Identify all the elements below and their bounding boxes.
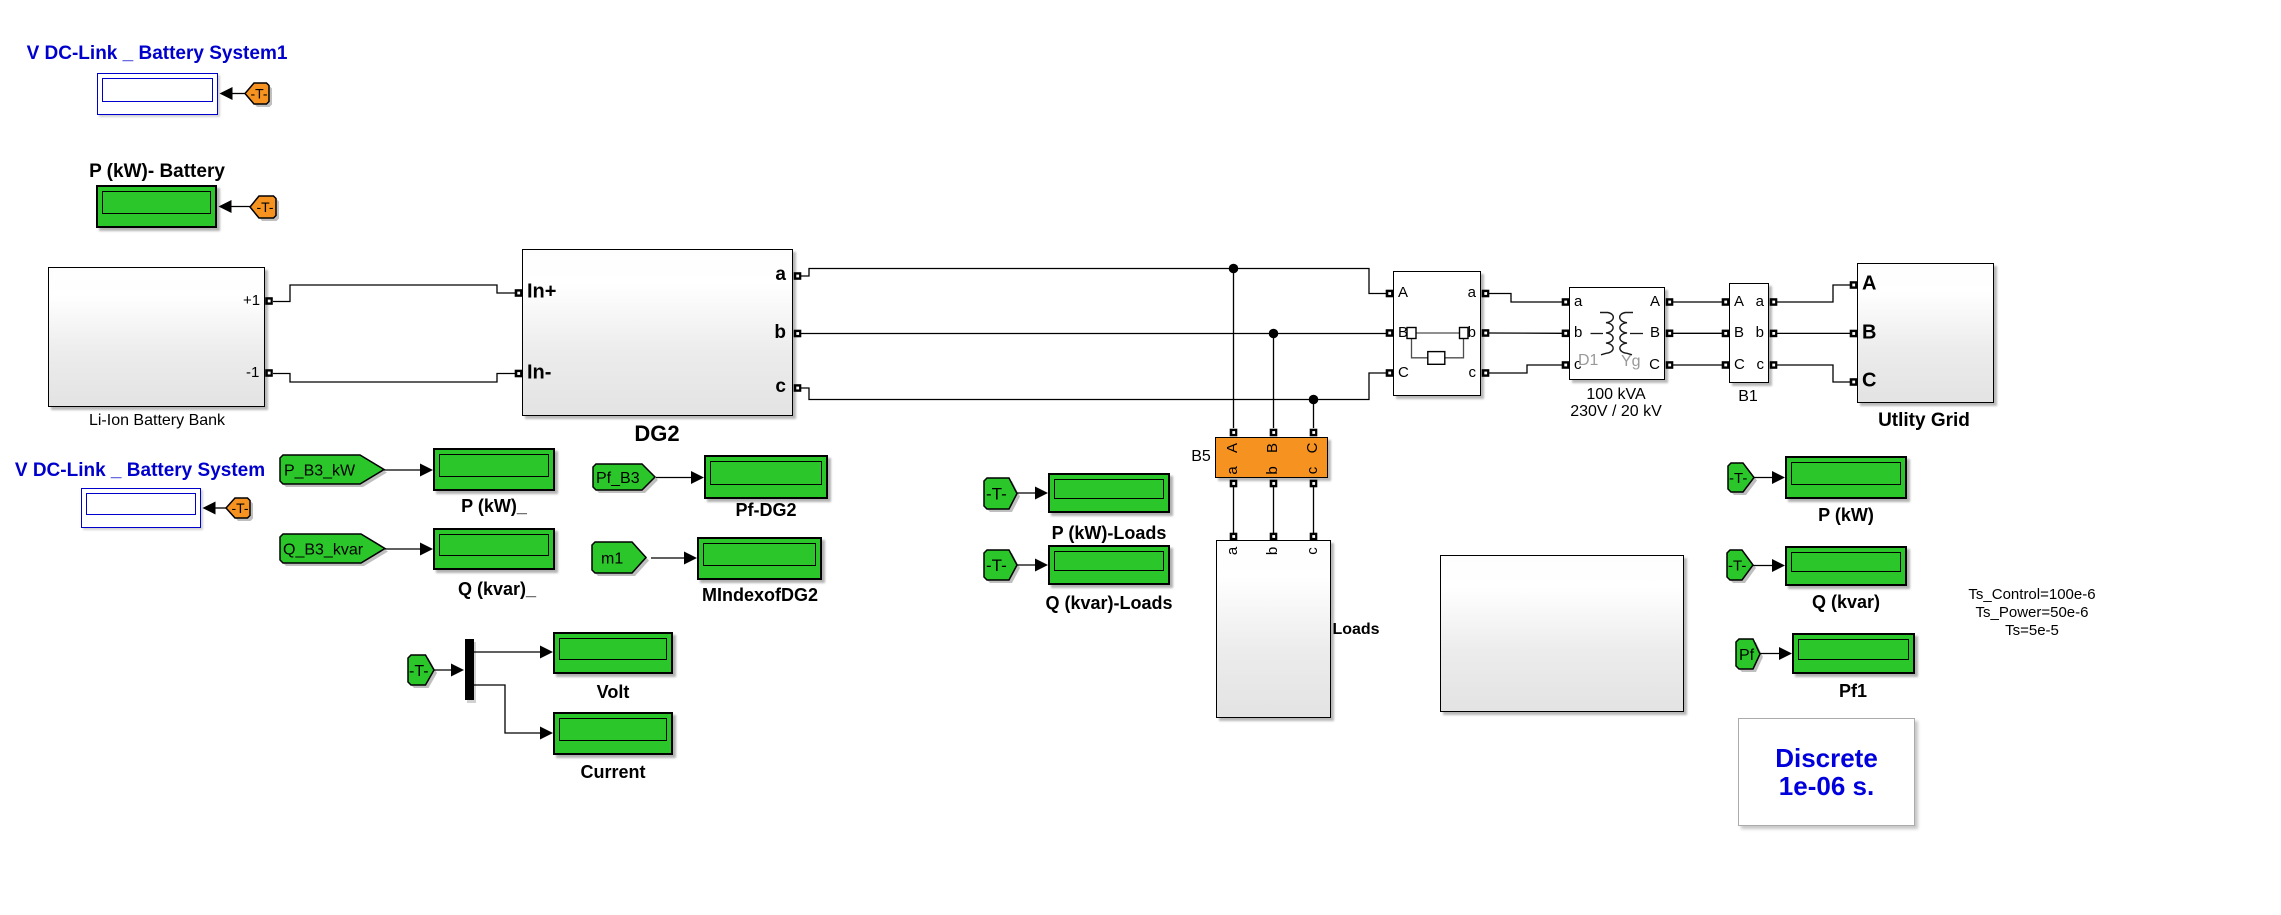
svg-text:P_B3_kW: P_B3_kW <box>284 462 356 479</box>
svg-text:-T-: -T- <box>1729 470 1747 487</box>
svg-text:Pf_B3: Pf_B3 <box>596 470 640 487</box>
svg-text:C: C <box>1304 442 1321 453</box>
svg-text:D1: D1 <box>1578 352 1599 369</box>
svg-text:a: a <box>1224 466 1241 475</box>
svg-text:c: c <box>1304 547 1321 555</box>
svg-text:c: c <box>1304 466 1321 474</box>
svg-text:B: B <box>1264 443 1281 453</box>
svg-text:-T-: -T- <box>231 500 248 516</box>
svg-text:b: b <box>1264 466 1281 474</box>
svg-text:Pf: Pf <box>1739 647 1755 664</box>
svg-text:-T-: -T- <box>986 485 1007 504</box>
svg-text:-T-: -T- <box>256 199 273 215</box>
svg-text:-T-: -T- <box>409 663 429 680</box>
svg-text:-T-: -T- <box>986 556 1007 575</box>
svg-text:A: A <box>1224 443 1241 453</box>
svg-text:Yg: Yg <box>1621 353 1641 370</box>
svg-text:m1: m1 <box>601 550 623 567</box>
svg-text:a: a <box>1224 546 1241 555</box>
svg-text:-T-: -T- <box>250 86 267 102</box>
svg-text:Q_B3_kvar: Q_B3_kvar <box>283 541 364 558</box>
svg-text:-T-: -T- <box>1728 557 1746 574</box>
svg-text:b: b <box>1264 547 1281 555</box>
